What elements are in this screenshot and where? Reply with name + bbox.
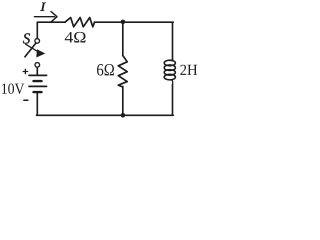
- wire 6ohm branch upper: [122, 22, 124, 56]
- battery plate short upper: [34, 80, 42, 82]
- switch S top terminal circle: [35, 39, 40, 44]
- battery plus sign: [23, 69, 27, 73]
- wire switch to battery: [36, 67, 38, 74]
- inductor entry curve: [170, 59, 173, 60]
- inductor exit curve: [170, 80, 173, 85]
- wire top mid (resistor to right corner): [95, 21, 174, 23]
- switch closing arrow solid head: [36, 49, 45, 57]
- switch S bottom terminal circle: [35, 63, 40, 68]
- current arrow I open head: [51, 12, 57, 22]
- resistor R1 4ohm zigzag: [65, 18, 95, 27]
- wire top-left horizontal (corner to resistor): [37, 22, 65, 39]
- battery plate short bottom: [34, 91, 42, 93]
- label S: [23, 33, 30, 43]
- label 4Ω: [65, 32, 86, 43]
- switch closing arrow shaft: [26, 44, 39, 52]
- resistor R2 6ohm zigzag: [118, 56, 127, 88]
- battery plate long top: [29, 74, 47, 76]
- wire left rail lower (battery to bottom): [36, 93, 38, 115]
- inductor L1 2H coil loops: [164, 60, 175, 66]
- battery minus sign: [24, 99, 28, 101]
- label I: [40, 3, 46, 11]
- node bottom junction dot: [121, 113, 126, 118]
- label 10V: [2, 84, 24, 95]
- current arrow I shaft: [34, 16, 54, 18]
- wire right rail upper: [172, 22, 174, 60]
- switch S blade: [25, 43, 36, 57]
- wire right rail lower: [172, 85, 174, 116]
- wire 6ohm branch lower: [122, 87, 124, 116]
- battery plate long lower: [29, 85, 47, 87]
- label 2H: [180, 65, 197, 75]
- wire bottom rail: [37, 114, 174, 116]
- label 6Ω: [97, 64, 114, 76]
- node top junction dot: [121, 20, 126, 25]
